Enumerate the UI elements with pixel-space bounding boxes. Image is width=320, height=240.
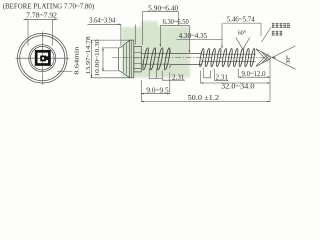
dim 4.30~4.35 lines xyxy=(176,23,222,48)
svg-text:60°: 60° xyxy=(238,30,247,37)
screw axis centerline xyxy=(112,57,277,59)
svg-text:5.90~6.40: 5.90~6.40 xyxy=(148,4,178,12)
drill point flutes xyxy=(256,49,269,66)
dim 2.31 left lines xyxy=(149,68,185,80)
head dome slope bottom xyxy=(121,72,130,78)
head washer section xyxy=(134,46,142,72)
dim 3.64~3.94 lines xyxy=(88,24,136,45)
dim 9.0~9.5 lines xyxy=(141,73,170,94)
square drive recess inner square xyxy=(40,56,46,62)
head dome contour lines xyxy=(123,44,126,74)
svg-text:9.0~9.5: 9.0~9.5 xyxy=(146,87,169,95)
centerline horizontal xyxy=(16,57,70,59)
drill point taper top xyxy=(256,49,271,57)
svg-text:7.78~7.92: 7.78~7.92 xyxy=(26,11,57,19)
leader line for note xyxy=(262,28,271,43)
svg-text:13.97~14.78: 13.97~14.78 xyxy=(85,36,92,74)
note fake chinese line 2 xyxy=(272,31,275,36)
thread section 1 root lines xyxy=(141,53,170,64)
shank lines xyxy=(171,54,201,65)
svg-text:(BEFORE PLATING 7.70~7.80): (BEFORE PLATING 7.70~7.80) xyxy=(3,1,95,10)
dim 50.0 lines xyxy=(141,94,270,102)
point angle 30 deg legs xyxy=(272,46,296,69)
svg-text:2.31: 2.31 xyxy=(172,75,185,82)
thread section 2 root lines xyxy=(202,54,256,61)
thread section 1 end taper xyxy=(169,50,171,69)
centerline vertical xyxy=(41,32,43,85)
dim 13.97~14.78 lines xyxy=(91,40,130,78)
head flange disk xyxy=(130,40,134,78)
drill point taper bottom xyxy=(256,58,271,66)
dim 5.46~5.74 lines xyxy=(223,23,261,36)
svg-text:3.64~3.94: 3.64~3.94 xyxy=(89,17,115,25)
square drive recess bridge xyxy=(46,56,49,60)
note fake chinese line 1 xyxy=(272,23,275,28)
green highlight region xyxy=(122,21,190,78)
svg-text:5.46~5.74: 5.46~5.74 xyxy=(227,16,255,24)
head dome slope top xyxy=(121,40,130,47)
svg-text:30°: 30° xyxy=(285,55,292,64)
head front view washer circle inner xyxy=(31,46,55,70)
svg-text:6.30~6.50: 6.30~6.50 xyxy=(163,18,189,26)
leader line for 8.64min xyxy=(57,70,72,72)
thread section 1 coils xyxy=(142,48,171,71)
head dome top face xyxy=(119,47,121,71)
dim 10.00~10.30 lines xyxy=(102,48,118,71)
svg-text:2.31: 2.31 xyxy=(216,75,229,82)
60 deg vee xyxy=(236,38,250,50)
dim 7.78~7.92 lines xyxy=(24,19,58,46)
dim 9.0~12.0 lines xyxy=(238,59,270,102)
dim 6.30~6.50 lines xyxy=(160,26,189,53)
head front view washer circle outer xyxy=(29,45,56,72)
svg-text:50.0 ±1.2: 50.0 ±1.2 xyxy=(188,94,220,102)
dim 5.90~6.40 lines xyxy=(143,12,179,45)
thread section 2 coils xyxy=(199,48,256,67)
svg-text:8.64min: 8.64min xyxy=(73,46,80,75)
svg-text:10.00~10.30: 10.00~10.30 xyxy=(94,40,101,77)
svg-text:32.0~34.0: 32.0~34.0 xyxy=(221,83,255,91)
svg-text:4.30~4.35: 4.30~4.35 xyxy=(179,32,208,40)
head front view flange inner circle xyxy=(20,36,65,81)
dim 2.31 right lines xyxy=(204,68,229,81)
square drive recess outer ring xyxy=(36,51,49,64)
svg-text:9.0~12.0: 9.0~12.0 xyxy=(242,70,266,78)
head front view flange outer circle xyxy=(18,33,68,83)
dim 32.0~34.0 lines xyxy=(201,71,271,84)
